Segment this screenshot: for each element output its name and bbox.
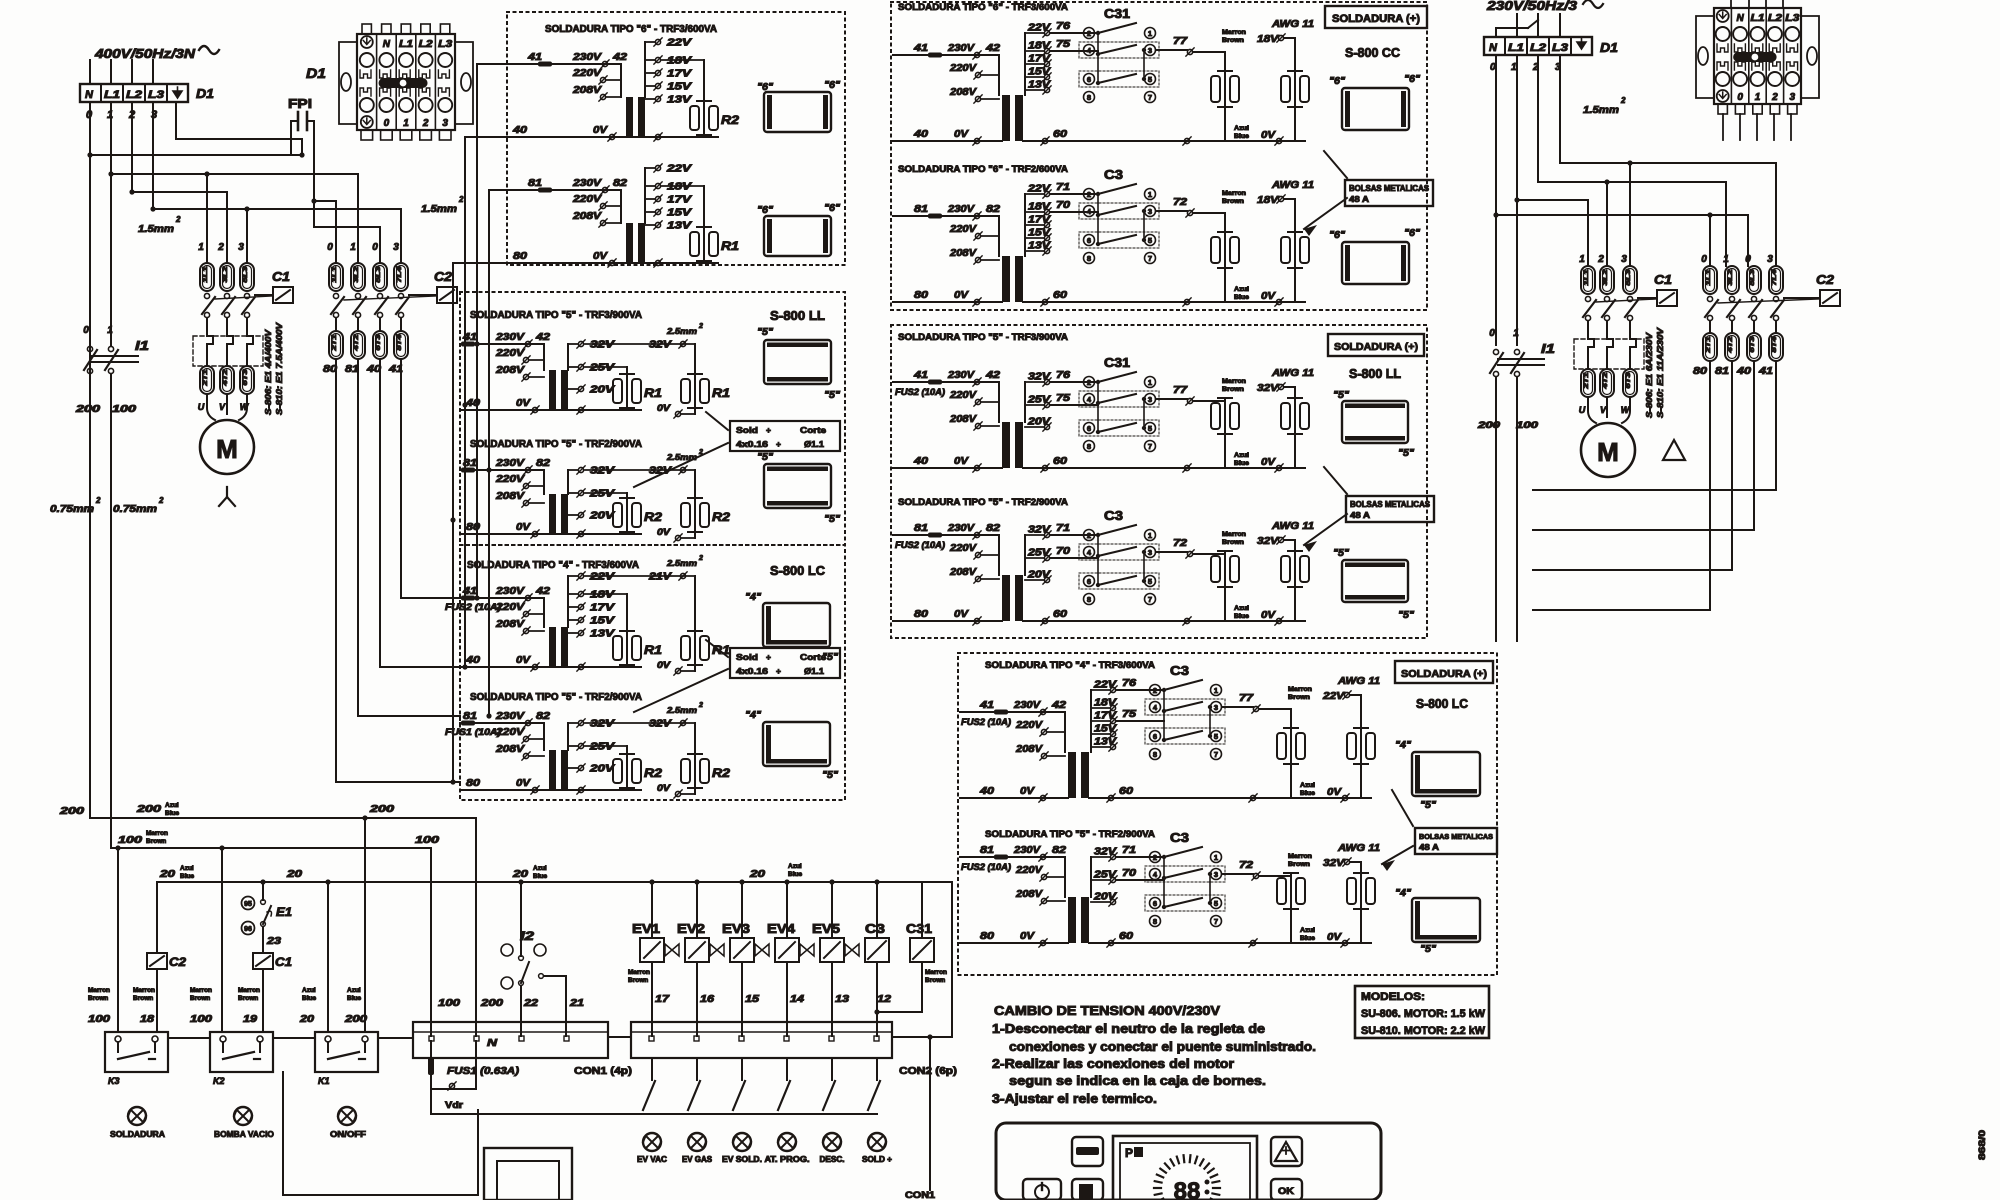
- svg-text:15V: 15V: [1028, 67, 1052, 78]
- label S-800 LL M2: [1349, 366, 1401, 381]
- wire CON1 CON2 link: [608, 1036, 631, 1038]
- wire drop C2 pin3: [400, 209, 402, 263]
- svg-text:15V: 15V: [1028, 228, 1052, 239]
- label 20 c: [512, 865, 548, 880]
- labels 200 100: [75, 404, 137, 415]
- svg-text:S-806: E1 6A/230V: S-806: E1 6A/230V: [1644, 331, 1654, 418]
- svg-text:208V: 208V: [1015, 889, 1044, 900]
- svg-text:SOLD +: SOLD +: [862, 1155, 892, 1164]
- svg-text:CON2 (6p): CON2 (6p): [899, 1066, 957, 1077]
- svg-text:8: 8: [1153, 750, 1157, 759]
- svg-text:200: 200: [136, 804, 162, 815]
- svg-text:Marron: Marron: [925, 969, 947, 976]
- svg-text:R2: R2: [644, 510, 662, 524]
- svg-text:71: 71: [1056, 182, 1071, 193]
- svg-text:8: 8: [1087, 442, 1091, 451]
- solenoid valve EV5: [812, 882, 859, 1036]
- svg-text:76: 76: [1056, 370, 1071, 381]
- svg-text:Marron: Marron: [1222, 190, 1246, 197]
- button power: [1023, 1179, 1061, 1200]
- svg-text:8: 8: [1087, 595, 1091, 604]
- svg-text:21V: 21V: [648, 572, 673, 583]
- svg-text:SOLDADURA TIPO "5" - TRF2/900V: SOLDADURA TIPO "5" - TRF2/900VA: [898, 497, 1068, 508]
- svg-text:72: 72: [1173, 538, 1188, 549]
- svg-text:"6": "6": [1404, 74, 1420, 85]
- svg-text:230V: 230V: [572, 178, 603, 189]
- svg-text:77: 77: [1173, 385, 1188, 396]
- button OK: [1271, 1179, 1302, 1200]
- svg-text:80: 80: [914, 609, 929, 620]
- svg-text:208V: 208V: [949, 567, 978, 578]
- svg-text:13V: 13V: [1028, 241, 1052, 252]
- svg-text:1: 1: [350, 242, 356, 253]
- svg-text:14: 14: [790, 994, 805, 1005]
- svg-text:L2: L2: [126, 89, 142, 101]
- svg-text:77: 77: [1173, 36, 1188, 47]
- svg-text:0: 0: [1737, 92, 1743, 103]
- svg-text:"6": "6": [1329, 230, 1345, 241]
- svg-text:R1: R1: [712, 643, 730, 657]
- svg-text:C1: C1: [275, 955, 292, 969]
- wye symbol: [219, 487, 235, 506]
- svg-text:R1: R1: [721, 239, 739, 253]
- svg-text:80: 80: [466, 778, 481, 789]
- net 400V supply label: [94, 46, 219, 61]
- label pins 0 1 0 3: [327, 242, 399, 253]
- svg-text:82: 82: [986, 204, 1001, 215]
- svg-text:Marron: Marron: [238, 987, 260, 994]
- svg-text:SOLDADURA TIPO "6" - TRF3/600V: SOLDADURA TIPO "6" - TRF3/600VA: [898, 2, 1068, 13]
- circuit M2b TRF2/900VA C3: [893, 508, 1314, 625]
- wire 200 right down: [1495, 377, 1497, 641]
- svg-text:41: 41: [462, 586, 478, 597]
- svg-text:25V: 25V: [589, 489, 616, 500]
- svg-text:2T1: 2T1: [203, 368, 209, 387]
- svg-text:220V: 220V: [949, 390, 978, 401]
- svg-text:7: 7: [1148, 93, 1152, 102]
- svg-text:Blue: Blue: [1234, 294, 1249, 301]
- svg-text:BOMBA VACIO: BOMBA VACIO: [214, 1129, 274, 1139]
- svg-text:AT. PROG.: AT. PROG.: [765, 1155, 810, 1164]
- svg-text:R2: R2: [721, 113, 739, 127]
- svg-text:220V: 220V: [949, 63, 978, 74]
- svg-text:SOLDADURA: SOLDADURA: [110, 1129, 165, 1139]
- label 100 a: [118, 830, 168, 846]
- svg-text:conexiones y conectar el puent: conexiones y conectar el puente suminist…: [1009, 1040, 1316, 1054]
- svg-text:Brown: Brown: [1288, 861, 1310, 868]
- svg-text:C3: C3: [865, 921, 885, 936]
- svg-text:FPI: FPI: [288, 96, 312, 111]
- svg-text:Brown: Brown: [146, 838, 166, 845]
- wire 41 run: [401, 359, 460, 598]
- switch contact CON2 2: [688, 1058, 700, 1110]
- svg-text:0: 0: [384, 118, 390, 129]
- svg-text:CON1 (4p): CON1 (4p): [574, 1066, 632, 1077]
- svg-text:0: 0: [1489, 328, 1495, 339]
- svg-text:Brown: Brown: [1288, 694, 1310, 701]
- contactor C1r lower terminals: [1581, 369, 1637, 397]
- motor rating text right: [1644, 326, 1665, 418]
- svg-text:6T3: 6T3: [1750, 335, 1756, 352]
- lamp EV SOLD.: [722, 1133, 762, 1164]
- svg-text:18V: 18V: [667, 56, 693, 67]
- svg-text:2: 2: [698, 702, 703, 709]
- title SOLDADURA TIPO 6 TRF3: [545, 24, 717, 35]
- svg-text:I1: I1: [1541, 341, 1555, 356]
- svg-text:17: 17: [655, 994, 670, 1005]
- label 200 a: [59, 806, 85, 817]
- title M3a: [985, 660, 1155, 671]
- label pins 1 2 3: [198, 242, 244, 253]
- svg-text:41: 41: [913, 43, 929, 54]
- label 200 b: [136, 802, 180, 817]
- thermal relay E1 right: [1574, 329, 1644, 369]
- svg-text:208V: 208V: [949, 248, 978, 259]
- svg-text:72: 72: [1173, 197, 1188, 208]
- svg-text:SOLDADURA TIPO "4" - TRF3/600V: SOLDADURA TIPO "4" - TRF3/600VA: [985, 660, 1155, 671]
- svg-text:200: 200: [480, 998, 504, 1009]
- svg-text:segun se indica en la caja de: segun se indica en la caja de bornes.: [1009, 1074, 1266, 1088]
- svg-text:32V: 32V: [1257, 383, 1280, 394]
- svg-text:Marron: Marron: [1222, 531, 1246, 538]
- bus 20 bottom: [157, 879, 952, 884]
- svg-text:C3: C3: [1104, 508, 1123, 523]
- box Sold Corte 1: [730, 421, 840, 451]
- rect 4 M3b: [1395, 888, 1480, 955]
- wire L2 right down: [1537, 55, 1539, 182]
- bus 200 bottom: [90, 815, 476, 820]
- svg-text:0V: 0V: [657, 660, 671, 670]
- svg-text:40: 40: [512, 125, 528, 136]
- svg-text:BOLSAS METALICAS: BOLSAS METALICAS: [1419, 832, 1493, 841]
- svg-text:208V: 208V: [572, 211, 603, 222]
- svg-text:Brown: Brown: [1222, 37, 1244, 44]
- svg-text:230V: 230V: [495, 458, 526, 469]
- svg-text:18V: 18V: [1028, 202, 1052, 213]
- arrow to sold corte 1: [634, 412, 728, 487]
- svg-text:82: 82: [536, 458, 551, 469]
- svg-text:20: 20: [299, 1014, 315, 1025]
- svg-text:82: 82: [1052, 845, 1067, 856]
- title SOLDADURA TIPO 5 TRF2: [470, 439, 642, 450]
- svg-text:P: P: [1125, 1146, 1133, 1160]
- svg-text:4T2: 4T2: [1728, 335, 1734, 354]
- svg-text:6: 6: [1087, 75, 1091, 84]
- svg-text:0V: 0V: [1261, 130, 1277, 141]
- label S-800 LC M3: [1416, 696, 1469, 711]
- svg-text:20V: 20V: [1027, 570, 1052, 581]
- svg-text:Azul: Azul: [347, 987, 361, 994]
- svg-text:EV1: EV1: [632, 921, 660, 936]
- svg-text:8: 8: [1087, 93, 1091, 102]
- svg-text:Azul: Azul: [1234, 125, 1249, 132]
- svg-text:1L1: 1L1: [332, 265, 338, 282]
- label CON1 4p: [574, 1066, 632, 1077]
- svg-text:L3: L3: [1785, 13, 1800, 24]
- svg-text:L3: L3: [148, 89, 164, 101]
- svg-text:ON/OFF: ON/OFF: [330, 1129, 366, 1139]
- svg-text:0V: 0V: [1261, 457, 1277, 468]
- rect 5 M2a: [1333, 390, 1414, 459]
- svg-text:C2: C2: [1816, 272, 1835, 287]
- wire 100 down: [110, 374, 112, 848]
- svg-text:3: 3: [1148, 46, 1152, 55]
- svg-text:220V: 220V: [949, 224, 978, 235]
- switch contact CON2 5: [823, 1058, 835, 1110]
- svg-text:40: 40: [913, 456, 929, 467]
- contactor C1 poles: [202, 293, 273, 317]
- wires C2 poles to ovals: [336, 318, 401, 331]
- svg-text:2: 2: [1153, 853, 1157, 862]
- title M2a: [898, 332, 1068, 343]
- wire 41r run: [1533, 361, 1776, 490]
- wire K3 left: [117, 848, 119, 1032]
- svg-text:C2: C2: [169, 955, 186, 969]
- title SOLDADURA TIPO 5 TRF3: [470, 310, 642, 321]
- wire number labels row: [88, 1014, 368, 1025]
- svg-text:2.5mm: 2.5mm: [666, 326, 698, 336]
- svg-text:1: 1: [1579, 254, 1585, 265]
- svg-text:"5": "5": [757, 452, 773, 463]
- svg-text:FUS2 (10A): FUS2 (10A): [445, 602, 501, 612]
- relay K2: [210, 1032, 273, 1086]
- svg-text:C31: C31: [906, 921, 932, 936]
- svg-text:0V: 0V: [657, 527, 671, 537]
- text CAMBIO 2b: [1009, 1074, 1266, 1088]
- svg-text:1: 1: [1214, 853, 1218, 862]
- svg-text:FUS2 (10A): FUS2 (10A): [961, 717, 1011, 727]
- svg-text:"4": "4": [1395, 740, 1411, 751]
- box M2 TIPO5 border: [891, 325, 1427, 638]
- svg-text:20V: 20V: [589, 385, 616, 396]
- svg-text:220V: 220V: [495, 474, 526, 485]
- svg-text:BOLSAS METALICAS: BOLSAS METALICAS: [1350, 500, 1431, 509]
- svg-text:0V: 0V: [1327, 932, 1343, 943]
- svg-text:22V: 22V: [1027, 184, 1052, 195]
- svg-text:18V: 18V: [590, 590, 616, 601]
- svg-text:1: 1: [1755, 92, 1761, 103]
- wires C2r poles to ovals: [1710, 321, 1776, 333]
- label marron EV1: [628, 969, 650, 984]
- svg-text:Corte: Corte: [800, 425, 826, 435]
- svg-text:Brown: Brown: [1222, 386, 1244, 393]
- svg-text:5L3: 5L3: [376, 265, 382, 282]
- svg-text:S-806: E1 4A/400V: S-806: E1 4A/400V: [263, 328, 273, 415]
- svg-text:N: N: [85, 89, 94, 101]
- box MODELOS: [1355, 986, 1489, 1038]
- lamp DESC.: [820, 1133, 845, 1164]
- svg-text:75: 75: [1056, 39, 1071, 50]
- svg-text:Vdr: Vdr: [445, 1100, 464, 1110]
- rect 6 M1a: [1329, 74, 1420, 130]
- wire tie 40 rails: [462, 137, 507, 670]
- svg-text:C1: C1: [272, 269, 290, 284]
- wire 40 run: [380, 359, 460, 667]
- arrow to sold corte 2: [634, 640, 728, 712]
- transformer TRF3/900VA circuit 41: [460, 323, 730, 418]
- contactor C2r box: [1816, 272, 1840, 306]
- svg-text:20: 20: [159, 869, 176, 880]
- labels 80 81 40 41 right: [1693, 366, 1774, 377]
- svg-text:2: 2: [1153, 686, 1157, 695]
- svg-text:OK: OK: [1278, 1186, 1295, 1196]
- connector CON1: [413, 1022, 608, 1058]
- svg-text:32V: 32V: [590, 466, 616, 477]
- terminal block D1 detail (left): [306, 24, 473, 140]
- svg-text:+: +: [766, 425, 771, 435]
- label pins 0 1 0 3 right: [1701, 254, 1773, 265]
- wire L3 down: [152, 60, 154, 209]
- svg-text:25V: 25V: [1027, 395, 1052, 406]
- svg-text:230V: 230V: [495, 586, 526, 597]
- svg-text:1: 1: [1148, 190, 1152, 199]
- wires thermal to ovals: [207, 356, 247, 366]
- svg-text:3: 3: [151, 109, 157, 121]
- svg-text:"5": "5": [822, 770, 838, 781]
- svg-text:2: 2: [698, 555, 703, 562]
- svg-text:3: 3: [1148, 395, 1152, 404]
- svg-text:8T4: 8T4: [1772, 335, 1778, 352]
- svg-text:Blue: Blue: [533, 873, 547, 880]
- drop C2r 0b: [1747, 215, 1749, 266]
- svg-text:3L2: 3L2: [223, 265, 229, 282]
- svg-text:E1: E1: [276, 905, 292, 919]
- svg-text:0V: 0V: [954, 129, 970, 140]
- rect 6 bottom: [757, 203, 840, 256]
- svg-text:41: 41: [979, 700, 995, 711]
- wire K2 left: [221, 848, 223, 1032]
- svg-text:42: 42: [1051, 700, 1067, 711]
- svg-text:Azul: Azul: [180, 865, 194, 872]
- circuit M2a TRF3/900VA C31: [893, 355, 1314, 472]
- svg-text:20: 20: [749, 869, 766, 880]
- rect 5 bottom: [757, 452, 840, 525]
- arrow BOLSAS M3: [1382, 790, 1413, 871]
- svg-text:2: 2: [1087, 531, 1091, 540]
- svg-text:0: 0: [83, 325, 89, 336]
- drop C1r pin1: [1587, 200, 1589, 266]
- svg-text:48 A: 48 A: [1419, 843, 1439, 852]
- contactor C2 poles: [331, 293, 437, 317]
- svg-text:V: V: [1600, 405, 1607, 415]
- svg-text:6: 6: [1087, 424, 1091, 433]
- wire E1 chain: [262, 882, 264, 953]
- labels 0.75mm2: [50, 496, 164, 515]
- svg-text:21: 21: [569, 998, 585, 1009]
- svg-text:SOLDADURA TIPO "4" - TRF3/600V: SOLDADURA TIPO "4" - TRF3/600VA: [467, 560, 639, 571]
- wire 80 run: [336, 359, 460, 782]
- contactor C2 terminals 1L1 3L2 5L3 7L4: [329, 263, 408, 291]
- svg-text:18V: 18V: [1257, 195, 1280, 206]
- svg-text:0V: 0V: [516, 655, 532, 666]
- svg-text:208V: 208V: [495, 491, 526, 502]
- svg-text:1: 1: [107, 325, 113, 336]
- supply wires right: [1496, 14, 1560, 37]
- svg-text:AWG 11: AWG 11: [1337, 843, 1381, 854]
- svg-text:220V: 220V: [572, 68, 603, 79]
- svg-text:0V: 0V: [593, 251, 609, 262]
- svg-text:V: V: [219, 402, 226, 412]
- svg-text:Marron: Marron: [190, 987, 212, 994]
- transformer TRF3/600VA circuit 41: [507, 38, 739, 142]
- svg-text:230V: 230V: [947, 204, 976, 215]
- svg-text:0V: 0V: [516, 398, 532, 409]
- switch I1 right: [1490, 341, 1555, 377]
- svg-text:20V: 20V: [589, 764, 616, 775]
- svg-text:DESC.: DESC.: [820, 1155, 845, 1164]
- svg-text:3L2: 3L2: [1728, 268, 1734, 285]
- wire K chain: [168, 1037, 413, 1039]
- text CAMBIO 1: [992, 1022, 1265, 1036]
- contactor C1 lower terminals: [200, 366, 254, 394]
- svg-text:U: U: [1579, 405, 1586, 415]
- svg-text:80: 80: [513, 251, 528, 262]
- svg-text:3: 3: [1148, 207, 1152, 216]
- svg-text:"5": "5": [1333, 548, 1349, 559]
- wire C1 coil: [262, 969, 264, 1032]
- rect 4 bottom: [745, 710, 838, 781]
- svg-text:0: 0: [327, 242, 333, 253]
- rect 5 top: [757, 327, 840, 401]
- wire bus L3 y209: [150, 206, 401, 211]
- svg-text:S-800 LC: S-800 LC: [770, 563, 826, 578]
- svg-text:22V: 22V: [666, 164, 693, 175]
- button doc: [1072, 1179, 1103, 1200]
- solenoid valve EV3: [722, 882, 769, 1036]
- text CAMBIO 2: [992, 1057, 1234, 1071]
- svg-text:Corte: Corte: [800, 652, 826, 662]
- label 1.5mm2 right: [421, 195, 464, 215]
- svg-text:CAMBIO DE TENSION 400V/230V: CAMBIO DE TENSION 400V/230V: [994, 1003, 1220, 1018]
- svg-text:100: 100: [190, 1014, 213, 1025]
- svg-text:0V: 0V: [593, 125, 609, 136]
- svg-text:100: 100: [415, 835, 440, 846]
- svg-text:3: 3: [1214, 703, 1218, 712]
- bus right y163: [1560, 160, 1776, 165]
- drop C2r 1: [1725, 182, 1727, 266]
- svg-text:R2: R2: [644, 766, 662, 780]
- svg-text:5: 5: [1148, 236, 1152, 245]
- svg-text:72: 72: [1239, 860, 1254, 871]
- label 20 a: [159, 865, 195, 880]
- svg-text:22V: 22V: [589, 572, 616, 583]
- svg-text:6: 6: [1087, 577, 1091, 586]
- svg-text:Brown: Brown: [238, 995, 258, 1002]
- svg-text:"6": "6": [1329, 76, 1345, 87]
- svg-text:42: 42: [612, 52, 628, 63]
- svg-text:SOLDADURA TIPO "5" - TRF2/900V: SOLDADURA TIPO "5" - TRF2/900VA: [985, 829, 1155, 840]
- svg-text:"4": "4": [1395, 888, 1411, 899]
- svg-text:23: 23: [266, 936, 282, 947]
- svg-text:76: 76: [1122, 678, 1137, 689]
- drop C2r 0a: [1709, 215, 1711, 266]
- svg-text:81: 81: [1715, 366, 1730, 377]
- wire L2 down: [131, 60, 133, 192]
- svg-text:L2: L2: [1530, 42, 1546, 54]
- contactor C1r box: [1654, 272, 1677, 306]
- svg-text:100: 100: [438, 998, 461, 1009]
- svg-text:81: 81: [463, 458, 478, 469]
- svg-text:20V: 20V: [589, 511, 616, 522]
- svg-text:Marron: Marron: [146, 830, 168, 837]
- rect 6 top: [757, 80, 840, 132]
- svg-text:EV GAS: EV GAS: [682, 1155, 713, 1164]
- arrow BOLSAS M1: [1304, 151, 1347, 236]
- label S-800 CC M1: [1345, 45, 1401, 60]
- svg-text:20V: 20V: [1027, 417, 1052, 428]
- svg-text:R2: R2: [712, 510, 730, 524]
- svg-text:EV4: EV4: [767, 921, 796, 936]
